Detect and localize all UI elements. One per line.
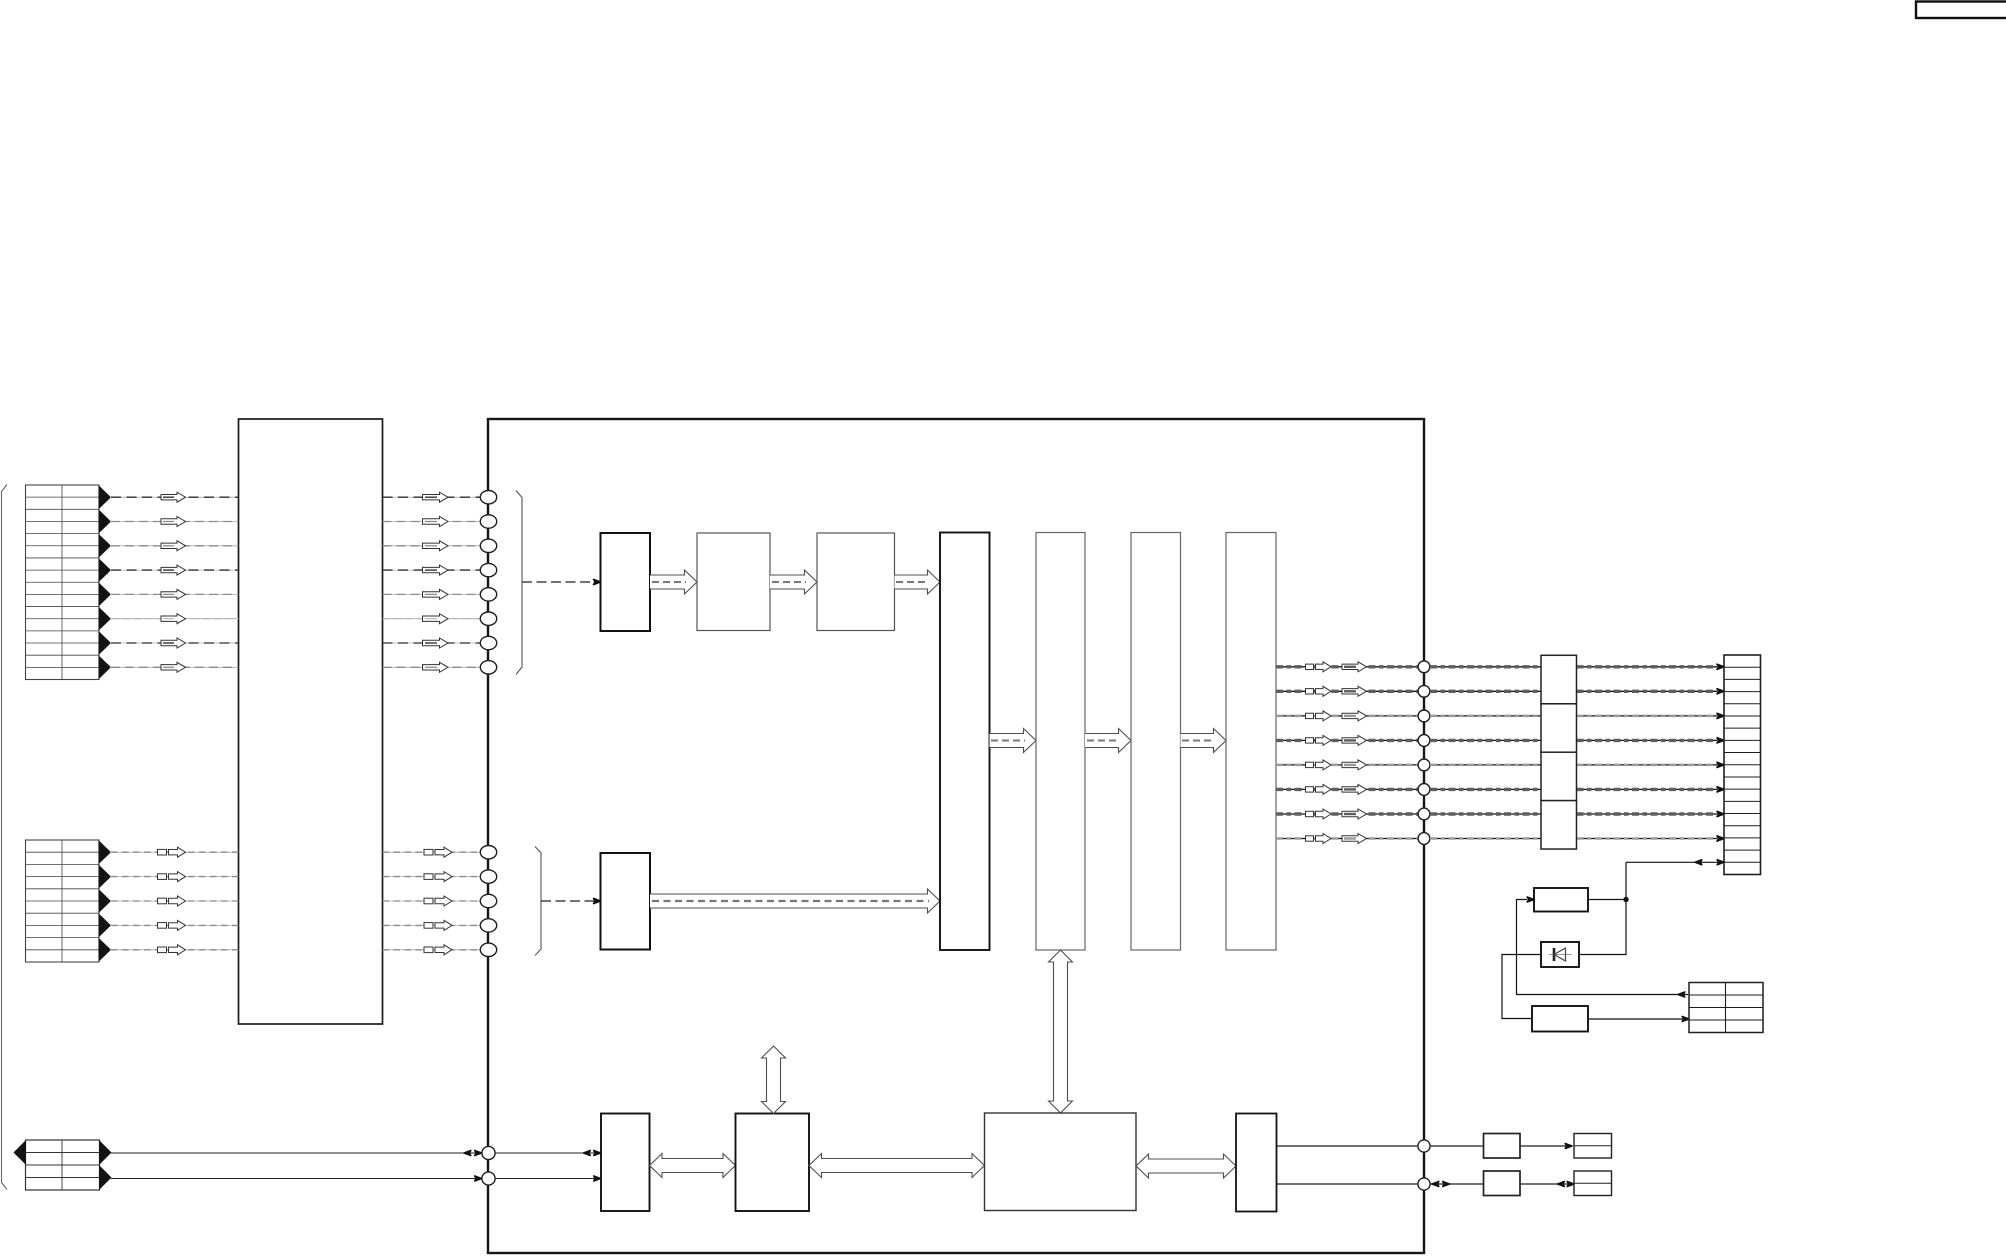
scan line S8 wire (CN1 to board pin) — [383, 666, 482, 668]
latch U7 — [1036, 533, 1085, 951]
scan line S7 wire (CN1 to board pin) — [383, 642, 482, 644]
scan line S2 wire (CN1 to board pin) — [383, 521, 482, 523]
output driver U9 — [1226, 533, 1276, 951]
scan line S5 wire (J1 to CN1) — [110, 593, 239, 595]
LED line L5 wire (CN1 to board pin) — [383, 949, 482, 951]
scan line S3 wire (J1 to CN1) — [110, 545, 239, 547]
bus collector bracket (key scan) — [516, 491, 522, 675]
filter F1 — [1484, 1134, 1521, 1159]
CPU U12 — [985, 1113, 1137, 1211]
LED feed wire — [541, 900, 594, 902]
arrowhead into display connector B4 — [1717, 738, 1724, 743]
LED line L1 wire (J2 to CN1) — [110, 851, 239, 853]
bus line B7: pin to resistor array — [1430, 813, 1541, 815]
scan line S7 flow symbol 2 — [423, 638, 449, 648]
jack CN6 (2-row) — [1574, 1171, 1612, 1196]
main controller board outline — [488, 419, 1424, 1253]
chattering filter U3 — [697, 533, 770, 631]
scan line S4 wire (J1 to CN1) — [110, 569, 239, 571]
board input pin (circle) for S2 — [480, 515, 496, 528]
board input pin (circle) for S3 — [480, 539, 496, 552]
scan line S2 wire (J1 to CN1) — [110, 521, 239, 523]
bus line B4: pin to resistor array — [1430, 739, 1541, 741]
scan line S1 flow symbol — [161, 492, 186, 502]
wire node junction to contrast line — [1625, 862, 1627, 899]
scan line S6 wire (CN1 to board pin) — [383, 618, 482, 620]
bus line B8: resistor array to display connector — [1577, 838, 1718, 840]
bus line B5: resistor array to display connector — [1577, 764, 1718, 766]
wire W4 (D1 to resistor R2) — [1502, 955, 1541, 1019]
board output pin (circle) B7 — [1418, 808, 1430, 820]
segment bus line B6: driver to board pin — [1276, 788, 1424, 790]
serial wire RXD (board to J3) — [111, 1152, 481, 1154]
scan line S8 flow symbol — [161, 662, 186, 672]
segment bus line B8: driver to board pin — [1276, 838, 1424, 840]
bus line B1: resistor array to display connector — [1577, 666, 1718, 668]
scan line S1 flow symbol 2 — [423, 492, 449, 502]
board pin circle TXD — [482, 1172, 495, 1185]
host bus stub (vertical double fat arrow above U11) — [762, 1046, 786, 1114]
scan line S3 wire (CN1 to board pin) — [383, 545, 482, 547]
bus line B6: pin to resistor array — [1430, 788, 1541, 790]
bus line B6 flow symbol (box+arrow) — [1306, 787, 1314, 792]
junction node dot — [1623, 897, 1628, 902]
board input pin (circle) for S1 — [480, 491, 496, 504]
key row output pin P3 (black wedge) — [99, 534, 112, 558]
resistor array RA1 — [1541, 655, 1577, 703]
filter F2 — [1484, 1171, 1521, 1196]
resistor R2 — [1532, 1006, 1588, 1032]
board output pin (circle) B5 — [1418, 759, 1430, 771]
segment bus line B7: driver to board pin — [1276, 813, 1424, 815]
scan line S4 flow symbol — [161, 565, 186, 575]
scan line S4 wire (CN1 to board pin) — [383, 569, 482, 571]
board input pin (circle) for S5 — [480, 588, 496, 601]
scan line S6 flow symbol 2 — [423, 614, 449, 624]
scan line S5 wire (CN1 to board pin) — [383, 593, 482, 595]
scan line S1 wire (J1 to CN1) — [110, 496, 239, 498]
input buffer U2 — [601, 533, 651, 631]
bus line B3: resistor array to display connector — [1577, 715, 1718, 717]
segment bus line B5: driver to board pin — [1276, 764, 1424, 766]
board output pin (circle) B3 — [1418, 710, 1430, 722]
fat arrow U8 to U9 — [1181, 729, 1227, 753]
board input pin (circle) for L3 — [480, 894, 496, 907]
LED line L4 wire (J2 to CN1) — [110, 924, 239, 926]
board input pin (circle) for L2 — [480, 870, 496, 883]
key row output pin P4 (black wedge) — [99, 558, 112, 582]
fat arrow U3 to U4 — [770, 570, 817, 594]
scan line S1 wire (CN1 to board pin) — [383, 496, 482, 498]
scan line S2 flow symbol — [161, 517, 186, 527]
board input pin (circle) for S4 — [480, 563, 496, 576]
wire W5 (R2 to backlight connector) — [1588, 1018, 1685, 1020]
arrowhead into display connector B5 — [1717, 762, 1724, 767]
scan line S6 wire (J1 to CN1) — [110, 618, 239, 620]
bus line B2: pin to resistor array — [1430, 690, 1541, 692]
line out wire (U13 to board pin) — [1277, 1145, 1419, 1147]
LED line L5 flow symbol 2 (box+arrow) — [424, 947, 433, 953]
scan line S4 flow symbol 2 — [423, 565, 449, 575]
board input pin (circle) for S8 — [480, 661, 496, 674]
key row output pin P6 (black wedge) — [99, 607, 112, 631]
segment bus line B1: driver to board pin — [1276, 666, 1424, 668]
board output pin (circle) B2 — [1418, 685, 1430, 697]
cable bundle bracket (far left) — [2, 485, 8, 1190]
arrowhead into display connector B2 — [1717, 689, 1724, 694]
contrast control wire to CN2 (bidirectional) — [1626, 861, 1724, 863]
arrowhead into display connector B3 — [1717, 713, 1724, 718]
bus line B8: pin to resistor array — [1430, 838, 1541, 840]
J3 right black wedge row2 — [99, 1165, 112, 1190]
arrowhead into display connector B1 — [1717, 664, 1724, 669]
board input pin (circle) for S7 — [480, 636, 496, 649]
board output pin (circle) B6 — [1418, 784, 1430, 796]
key row output pin P8 (black wedge) — [99, 655, 112, 679]
segment bus line B2: driver to board pin — [1276, 690, 1424, 692]
LED row pin P4 (black wedge) — [99, 913, 112, 937]
J3 right black wedge row1 — [99, 1140, 112, 1165]
LED row pin P2 (black wedge) — [99, 865, 112, 889]
bus line B5: pin to resistor array — [1430, 764, 1541, 766]
double fat arrow U11 to CPU — [809, 1154, 985, 1178]
shift register U8 — [1131, 533, 1181, 951]
LED line L2 flow symbol 2 (box+arrow) — [424, 874, 433, 880]
feedback wire W1 (CN2 row to resistor R1) — [1517, 900, 1689, 995]
bus line B6: resistor array to display connector — [1577, 788, 1718, 790]
board pin circle OUT — [1418, 1140, 1430, 1152]
line in wire (board pin to U13) — [1277, 1183, 1419, 1185]
key scan feed wire — [522, 581, 594, 583]
fat arrow U5 to U7 — [990, 729, 1037, 753]
board input pin (circle) for L4 — [480, 919, 496, 932]
LED line L2 flow symbol (box+arrow) — [158, 874, 167, 880]
serial connector J3 (4-row table) — [26, 1140, 100, 1190]
bus line B1: pin to resistor array — [1430, 666, 1541, 668]
scan line S5 flow symbol 2 — [423, 589, 449, 599]
key encoder U4 — [817, 533, 895, 631]
segment bus line B3: driver to board pin — [1276, 715, 1424, 717]
LED line L1 wire (CN1 to board pin) — [383, 851, 482, 853]
LED row pin P1 (black wedge) — [99, 840, 112, 864]
LED line L1 flow symbol 2 (box+arrow) — [424, 849, 433, 855]
key row output pin P7 (black wedge) — [99, 631, 112, 655]
serial interface buffer U10 — [601, 1114, 650, 1212]
scan line S7 flow symbol — [161, 638, 186, 648]
LED line L3 wire (J2 to CN1) — [110, 900, 239, 902]
LED connector J2 (10-pin table) — [26, 840, 100, 962]
arrowhead into display connector B6 — [1717, 787, 1724, 792]
bus line B1 flow symbol 2 — [1342, 662, 1367, 672]
scan line S7 wire (J1 to CN1) — [110, 642, 239, 644]
fat arrow U4 to U5 — [895, 570, 941, 594]
bus line B2: resistor array to display connector — [1577, 690, 1718, 692]
wire F1 to jack CN5 — [1520, 1145, 1570, 1147]
bus line B7 flow symbol (box+arrow) — [1306, 811, 1314, 816]
LED line L2 wire (CN1 to board pin) — [383, 876, 482, 878]
LED line L3 wire (CN1 to board pin) — [383, 900, 482, 902]
fat arrow U2 to U3 — [650, 570, 697, 594]
double fat arrow CPU to U13 — [1136, 1154, 1236, 1178]
operation-panel connector block CN1 — [239, 419, 383, 1024]
LED line L5 wire (J2 to CN1) — [110, 949, 239, 951]
display connector CN2 (18-pin) — [1724, 655, 1761, 875]
board input pin (circle) for S6 — [480, 612, 496, 625]
resistor R1 — [1534, 888, 1588, 912]
board output pin (circle) B8 — [1418, 833, 1430, 845]
wire F2 to jack CN6 — [1520, 1183, 1574, 1185]
key row output pin P5 (black wedge) — [99, 582, 112, 606]
board output pin (circle) B4 — [1418, 735, 1430, 747]
bus line B8 flow symbol (box+arrow) — [1306, 836, 1314, 841]
LED driver U6 — [601, 853, 651, 950]
J3 left black wedge (TX out) — [14, 1140, 27, 1165]
bus line B5 flow symbol 2 — [1342, 760, 1367, 770]
bus collector bracket (LED drive) — [535, 847, 541, 956]
bus line B8 flow symbol 2 — [1342, 834, 1367, 844]
long fat arrow U6 to U5 — [650, 889, 940, 913]
scan line S2 flow symbol 2 — [423, 517, 449, 527]
bus line B4 flow symbol 2 — [1342, 735, 1367, 745]
bus line B7 flow symbol 2 — [1342, 809, 1367, 819]
title block (top-right corner) — [1916, 2, 2006, 19]
backlight connector CN4 (2x4 table) — [1689, 983, 1763, 1033]
scan line S8 flow symbol 2 — [423, 662, 449, 672]
TXD wire inside board — [495, 1178, 600, 1180]
board input pin (circle) for L1 — [480, 846, 496, 859]
wire OUT to filter F1 — [1430, 1145, 1484, 1147]
jack CN5 (2-row) — [1574, 1134, 1612, 1159]
board output pin (circle) B1 — [1418, 661, 1430, 673]
board input pin (circle) for L5 — [480, 943, 496, 956]
board pin circle IN — [1418, 1178, 1430, 1190]
LED line L3 flow symbol (box+arrow) — [158, 898, 167, 904]
LED line L4 flow symbol 2 (box+arrow) — [424, 923, 433, 929]
diode D1 (zener) — [1541, 942, 1579, 967]
bus line B1 flow symbol (box+arrow) — [1306, 664, 1314, 669]
LED row pin P5 (black wedge) — [99, 938, 112, 962]
scan line S3 flow symbol — [161, 541, 186, 551]
bus line B4 flow symbol (box+arrow) — [1306, 738, 1314, 743]
bus line B3 flow symbol (box+arrow) — [1306, 713, 1314, 718]
key row output pin P1 (black wedge) — [99, 485, 112, 509]
segment bus line B4: driver to board pin — [1276, 739, 1424, 741]
data bus U7 to CPU (vertical double fat arrow) — [1049, 950, 1073, 1113]
key matrix connector J1 (16-pin table) — [26, 485, 100, 680]
key row output pin P2 (black wedge) — [99, 509, 112, 533]
LED line L5 flow symbol (box+arrow) — [158, 947, 167, 953]
double fat arrow U10 to U11 — [650, 1154, 736, 1178]
line driver U13 — [1236, 1114, 1277, 1212]
bus line B3 flow symbol 2 — [1342, 711, 1367, 721]
wire IN from filter F2 — [1430, 1183, 1484, 1185]
LED line L1 flow symbol (box+arrow) — [158, 849, 167, 855]
wire W2 (R1 to diode D1) — [1579, 900, 1626, 955]
scan line S3 flow symbol 2 — [423, 541, 449, 551]
scan line S6 flow symbol — [161, 614, 186, 624]
scan line S5 flow symbol — [161, 589, 186, 599]
arrowhead into display connector B7 — [1717, 811, 1724, 816]
bus line B4: resistor array to display connector — [1577, 739, 1718, 741]
UART U11 — [736, 1114, 810, 1212]
bus line B7: resistor array to display connector — [1577, 813, 1718, 815]
RXD wire inside board — [495, 1152, 600, 1154]
LED line L4 flow symbol (box+arrow) — [158, 923, 167, 929]
board pin circle RXD — [482, 1146, 495, 1159]
bus line B2 flow symbol (box+arrow) — [1306, 689, 1314, 694]
I/O gate array U5 — [940, 533, 990, 951]
fat arrow U7 to U8 — [1085, 729, 1131, 753]
LED row pin P3 (black wedge) — [99, 889, 112, 913]
arrowhead into display connector B8 — [1717, 836, 1724, 841]
scan line S8 wire (J1 to CN1) — [110, 666, 239, 668]
LED line L3 flow symbol 2 (box+arrow) — [424, 898, 433, 904]
LED line L4 wire (CN1 to board pin) — [383, 924, 482, 926]
bus line B5 flow symbol (box+arrow) — [1306, 762, 1314, 767]
bus line B3: pin to resistor array — [1430, 715, 1541, 717]
bus line B2 flow symbol 2 — [1342, 686, 1367, 696]
serial wire TXD (J3 to board) — [111, 1178, 481, 1180]
bus line B6 flow symbol 2 — [1342, 784, 1367, 794]
LED line L2 wire (J2 to CN1) — [110, 876, 239, 878]
